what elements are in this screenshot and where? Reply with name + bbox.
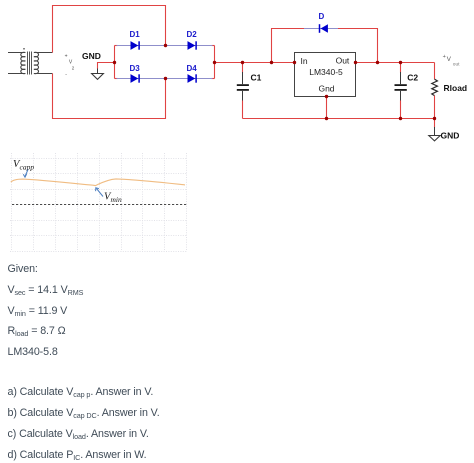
svg-text:out: out (453, 61, 460, 67)
node Vmin label (96, 188, 122, 204)
wire bridge bottom row (115, 78, 215, 80)
svg-text:-: - (65, 71, 67, 77)
diode D4 (187, 64, 198, 83)
wire in rail (215, 62, 295, 64)
diode D2 (187, 30, 198, 50)
svg-text:V: V (447, 56, 452, 63)
svg-text:+: + (443, 54, 446, 60)
svg-text:D2: D2 (187, 30, 198, 39)
wire gnd drop (326, 97, 328, 119)
wire bridge left (114, 46, 116, 79)
svg-text:capp: capp (20, 163, 35, 172)
diode D3 (130, 64, 141, 83)
svg-text:Out: Out (336, 56, 350, 66)
diode D1 (130, 30, 141, 50)
svg-text:Gnd: Gnd (318, 84, 334, 94)
svg-text:D1: D1 (130, 30, 141, 39)
svg-text:LM340-5: LM340-5 (309, 67, 343, 77)
transformer T1 (8, 48, 53, 75)
svg-text:D4: D4 (187, 64, 198, 73)
svg-text:C2: C2 (407, 72, 418, 82)
svg-text:GND: GND (82, 51, 101, 61)
resistor Rload (432, 63, 467, 119)
wire bridge top row (115, 45, 215, 47)
ground right (429, 119, 460, 141)
wire bottom loop (53, 74, 166, 119)
wire gnd stub (98, 63, 115, 69)
svg-text:min: min (111, 195, 123, 204)
capacitor C2 (395, 63, 419, 119)
svg-text:Rload: Rload (444, 83, 468, 93)
op-amp U1 LM340-5 regulator (295, 53, 356, 97)
svg-text:D: D (319, 12, 325, 21)
diode D (319, 12, 328, 33)
svg-text:D3: D3 (130, 64, 141, 73)
junction dots (113, 44, 436, 120)
node Vout label (443, 54, 461, 68)
svg-text:V: V (69, 59, 73, 65)
capacitor C1 (237, 63, 262, 119)
wire out rail (356, 62, 435, 64)
scope zero dashed line (12, 204, 187, 206)
node V2 label (65, 54, 75, 78)
wire top loop (53, 6, 166, 53)
ground left (82, 51, 103, 79)
scope waveform (11, 179, 185, 186)
svg-text:GND: GND (441, 131, 460, 141)
scope grid (10, 153, 187, 252)
wire bridge right (214, 46, 216, 79)
svg-text:2: 2 (72, 66, 75, 71)
svg-text:In: In (301, 56, 308, 66)
svg-text:+: + (65, 54, 68, 60)
wire diode branch (272, 29, 378, 63)
node Vcapp label (13, 159, 34, 177)
wire bottom rail (243, 118, 435, 120)
svg-text:C1: C1 (251, 73, 262, 83)
